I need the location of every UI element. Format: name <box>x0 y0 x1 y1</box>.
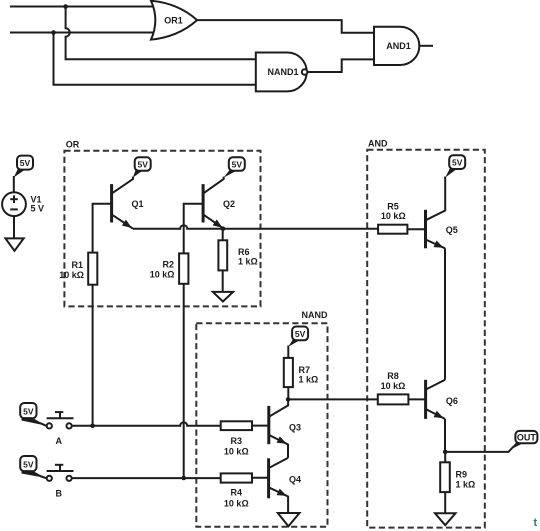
wire input B second line <box>11 32 154 34</box>
wire node A to R3 (hops over R2 wire) <box>72 422 221 426</box>
svg-text:R4: R4 <box>231 488 243 498</box>
svg-text:5V: 5V <box>23 459 34 469</box>
wire output node to OUT flag <box>445 446 514 452</box>
wire branch from A down to NAND1 input 1 (with hop over B line) <box>66 7 256 60</box>
wire Q1 base from R1 <box>93 204 112 253</box>
resistor R8 <box>378 394 409 404</box>
node B junction <box>181 476 186 481</box>
wire V1 to ground <box>13 216 15 238</box>
svg-text:10 kΩ: 10 kΩ <box>224 498 249 508</box>
wire R5 to Q5 base <box>407 228 425 230</box>
svg-text:1 kΩ: 1 kΩ <box>456 479 476 489</box>
wire R9 bottom to ground <box>444 492 446 513</box>
svg-text:1 kΩ: 1 kΩ <box>238 257 258 267</box>
transistor Q4 <box>269 458 289 513</box>
svg-text:10 kΩ: 10 kΩ <box>59 270 84 280</box>
dashed box OR section <box>64 151 260 307</box>
wire flag to switch A contact <box>40 423 47 426</box>
power flag 5V for switch B <box>20 456 46 478</box>
resistor R1 <box>88 253 97 285</box>
node B branch junction <box>51 30 56 35</box>
wire AND1 output stub <box>419 45 432 47</box>
power flag 5V for switch A <box>20 403 46 426</box>
svg-text:10 kΩ: 10 kΩ <box>224 447 249 457</box>
resistor R5 <box>378 225 407 234</box>
wire output node to R9 <box>444 452 446 462</box>
wire node to R8 <box>288 398 378 400</box>
ground below R9 <box>435 513 456 525</box>
transistor Q3 <box>269 399 288 458</box>
nand-gate NAND1 <box>256 53 307 92</box>
voltage source V1 <box>2 192 26 216</box>
dashed box NAND section <box>196 323 327 526</box>
svg-text:Q6: Q6 <box>446 396 458 406</box>
svg-text:Q3: Q3 <box>289 423 301 433</box>
svg-text:R9: R9 <box>456 470 468 480</box>
node emitter bus / R6 junction <box>221 226 226 231</box>
wire R2 bottom to node B <box>183 284 185 478</box>
svg-text:t: t <box>534 517 538 529</box>
output flag OUT <box>511 431 538 450</box>
svg-text:Q2: Q2 <box>223 199 235 209</box>
ground below R6 <box>213 292 233 302</box>
svg-text:R6: R6 <box>238 247 250 257</box>
svg-text:5V: 5V <box>232 160 243 170</box>
wire Q2 base from R2 <box>184 204 203 254</box>
wire node B to R4 <box>72 477 221 479</box>
power flag 5V for V1 <box>14 156 33 178</box>
resistor R4 <box>221 473 252 482</box>
svg-text:5V: 5V <box>20 158 31 168</box>
transistor Q6 <box>426 380 445 419</box>
power flag 5V for Q1 <box>133 157 151 177</box>
resistor R9 <box>440 462 450 492</box>
svg-text:10 kΩ: 10 kΩ <box>150 270 175 280</box>
wire R3 to Q3 base <box>252 425 269 427</box>
transistor Q5 <box>426 177 446 249</box>
svg-text:R7: R7 <box>299 365 311 375</box>
or-gate OR1 <box>151 1 197 40</box>
resistor R6 <box>218 240 227 270</box>
resistor R2 <box>179 253 188 283</box>
svg-text:B: B <box>55 488 62 498</box>
svg-text:5V: 5V <box>137 160 148 170</box>
and-gate AND1 <box>374 27 419 65</box>
wire emitter bus Q1/Q2 to R5 (hops over R2 wire) <box>133 225 378 229</box>
wire R8 to Q6 base <box>408 398 425 400</box>
svg-text:OR1: OR1 <box>164 15 183 25</box>
ground below Q4 <box>278 513 300 526</box>
power flag 5V for Q5 <box>445 155 465 177</box>
transistor Q1 <box>112 177 133 229</box>
wire R1 bottom to node A <box>92 285 94 426</box>
svg-text:5V: 5V <box>452 158 463 168</box>
svg-text:R8: R8 <box>387 371 399 381</box>
svg-text:Q5: Q5 <box>446 225 458 235</box>
wire NAND1 output to AND1 input 2 <box>307 59 374 72</box>
wire input A top line <box>11 6 154 8</box>
svg-text:R5: R5 <box>387 202 399 212</box>
node A branch junction <box>63 4 68 9</box>
resistor R3 <box>221 421 252 430</box>
node A junction <box>90 424 95 429</box>
wire OR1 output to AND1 input 1 <box>197 20 374 33</box>
transistor Q2 <box>203 177 224 229</box>
svg-text:OUT: OUT <box>517 433 537 443</box>
svg-text:Q4: Q4 <box>289 475 301 485</box>
resistor R7 <box>284 358 293 387</box>
wire R6 top <box>222 229 224 241</box>
wire R4 to Q4 base <box>252 477 269 479</box>
svg-text:OR: OR <box>66 140 80 150</box>
node output junction <box>443 450 448 455</box>
svg-text:R2: R2 <box>162 260 174 270</box>
svg-text:R1: R1 <box>71 260 83 270</box>
svg-text:10 kΩ: 10 kΩ <box>381 381 406 391</box>
switch B pushbutton <box>47 465 74 481</box>
wire branch from B down to NAND1 input 2 <box>54 33 256 85</box>
wire Q6 emitter down to output node <box>444 419 446 452</box>
svg-text:5 V: 5 V <box>31 204 45 214</box>
dashed box AND section <box>367 150 485 528</box>
wire Q5 emitter to Q6 collector rail <box>444 248 446 379</box>
svg-text:10 kΩ: 10 kΩ <box>381 211 406 221</box>
switch A pushbutton <box>47 412 74 428</box>
svg-text:AND: AND <box>368 139 388 149</box>
power flag 5V for Q2 <box>224 157 245 177</box>
svg-text:NAND: NAND <box>302 310 328 320</box>
svg-text:R3: R3 <box>231 436 243 446</box>
node Q3 collector / R8 junction <box>286 397 291 402</box>
wire V1 flag to source <box>13 176 15 192</box>
svg-text:Q1: Q1 <box>132 199 144 209</box>
ground below V1 <box>5 238 23 250</box>
power flag 5V for R7 <box>288 327 308 347</box>
wire flag to switch B contact <box>40 476 47 478</box>
wire R6 bottom to ground <box>222 270 224 292</box>
svg-text:AND1: AND1 <box>386 41 411 51</box>
wire R7 bottom to node <box>287 387 289 399</box>
svg-text:5V: 5V <box>295 329 306 339</box>
svg-text:A: A <box>55 436 62 446</box>
svg-text:5V: 5V <box>23 406 34 416</box>
svg-text:1 kΩ: 1 kΩ <box>299 374 319 384</box>
wire 5V flag to R7 <box>287 346 289 358</box>
bubble NAND1 output inversion <box>302 69 308 75</box>
svg-text:NAND1: NAND1 <box>267 67 298 77</box>
